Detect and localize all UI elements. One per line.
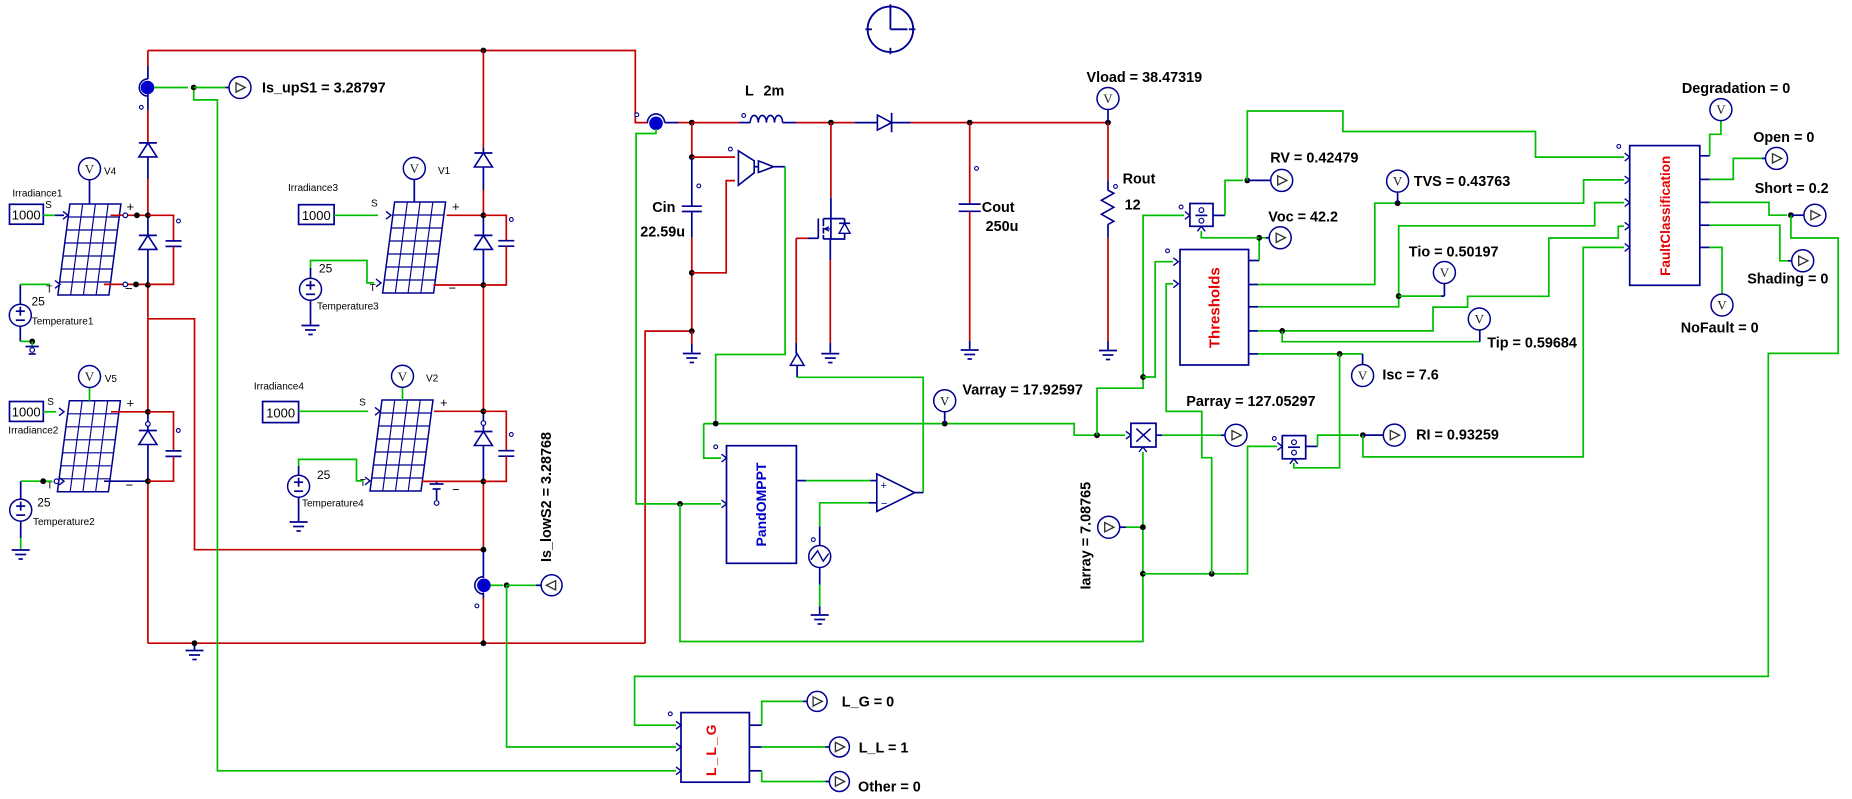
svg-text:V5: V5 — [105, 374, 118, 385]
svg-text:−: − — [449, 281, 457, 296]
svg-text:L_L = 1: L_L = 1 — [859, 740, 909, 756]
svg-text:Irradiance3: Irradiance3 — [288, 183, 338, 194]
svg-text:Thresholds: Thresholds — [1207, 267, 1224, 348]
svg-text:Cout: Cout — [982, 200, 1015, 216]
svg-text:V: V — [940, 393, 950, 408]
svg-text:V: V — [398, 369, 408, 384]
svg-text:Vload = 38.47319: Vload = 38.47319 — [1087, 70, 1203, 86]
svg-text:Temperature4: Temperature4 — [302, 499, 364, 510]
svg-text:V: V — [1358, 368, 1368, 383]
svg-text:Cin: Cin — [652, 200, 675, 216]
svg-text:PandOMPPT: PandOMPPT — [753, 462, 769, 546]
svg-text:Temperature2: Temperature2 — [33, 517, 95, 528]
svg-text:Isc = 7.6: Isc = 7.6 — [1382, 368, 1438, 384]
svg-text:2m: 2m — [764, 84, 785, 100]
svg-text:Temperature3: Temperature3 — [317, 302, 379, 313]
svg-text:S: S — [359, 398, 366, 409]
svg-text:1000: 1000 — [302, 208, 331, 223]
svg-text:Parray = 127.05297: Parray = 127.05297 — [1186, 394, 1315, 410]
svg-text:25: 25 — [319, 262, 333, 276]
svg-text:TVS = 0.43763: TVS = 0.43763 — [1414, 174, 1510, 190]
svg-text:1000: 1000 — [12, 207, 41, 222]
svg-text:Irradiance1: Irradiance1 — [12, 189, 62, 200]
svg-text:V: V — [1475, 312, 1485, 327]
svg-text:−: − — [452, 482, 460, 497]
svg-text:S: S — [371, 198, 378, 209]
svg-text:V: V — [85, 369, 95, 384]
svg-text:+: + — [127, 199, 135, 214]
svg-text:V2: V2 — [426, 374, 439, 385]
svg-text:Iarray = 7.08765: Iarray = 7.08765 — [1079, 482, 1095, 590]
svg-text:V1: V1 — [438, 166, 451, 177]
svg-text:Irradiance4: Irradiance4 — [254, 382, 304, 393]
svg-text:V: V — [85, 161, 95, 176]
svg-text:Degradation = 0: Degradation = 0 — [1682, 81, 1790, 97]
svg-text:Rout: Rout — [1123, 172, 1156, 188]
svg-text:+: + — [452, 199, 460, 214]
svg-text:NoFault = 0: NoFault = 0 — [1681, 320, 1759, 336]
svg-text:25: 25 — [32, 295, 46, 309]
svg-text:V: V — [1717, 298, 1727, 313]
svg-text:+: + — [881, 480, 887, 492]
svg-text:−: − — [125, 281, 133, 296]
svg-text:22.59u: 22.59u — [640, 225, 685, 241]
svg-text:1000: 1000 — [266, 406, 295, 421]
svg-text:−: − — [881, 498, 887, 510]
svg-text:Short = 0.2: Short = 0.2 — [1755, 181, 1829, 197]
svg-text:+: + — [127, 396, 135, 411]
svg-text:L: L — [745, 84, 754, 100]
svg-text:V4: V4 — [104, 167, 117, 178]
svg-text:T: T — [46, 285, 52, 296]
svg-text:Shading = 0: Shading = 0 — [1747, 271, 1828, 287]
svg-text:T: T — [47, 481, 53, 492]
svg-text:RV = 0.42479: RV = 0.42479 — [1270, 150, 1358, 166]
svg-text:V: V — [1393, 174, 1403, 189]
svg-text:V: V — [1103, 91, 1113, 106]
svg-text:+: + — [440, 395, 448, 410]
svg-text:V: V — [410, 161, 420, 176]
svg-text:Varray = 17.92597: Varray = 17.92597 — [962, 383, 1082, 399]
svg-text:T: T — [360, 478, 366, 489]
svg-text:250u: 250u — [986, 219, 1019, 235]
svg-text:V: V — [1716, 102, 1726, 117]
svg-text:T: T — [370, 283, 376, 294]
svg-text:S: S — [45, 200, 52, 211]
svg-text:Other = 0: Other = 0 — [858, 779, 921, 795]
svg-text:FaultClassification: FaultClassification — [1658, 156, 1673, 276]
svg-text:25: 25 — [317, 468, 331, 482]
svg-text:Voc = 42.2: Voc = 42.2 — [1268, 210, 1338, 226]
svg-text:Temperature1: Temperature1 — [32, 317, 94, 328]
svg-text:Tip = 0.59684: Tip = 0.59684 — [1487, 335, 1577, 351]
svg-text:25: 25 — [37, 496, 51, 510]
svg-text:RI = 0.93259: RI = 0.93259 — [1416, 428, 1499, 444]
svg-text:−: − — [126, 478, 134, 493]
svg-text:Tio = 0.50197: Tio = 0.50197 — [1409, 245, 1499, 261]
svg-text:L_G = 0: L_G = 0 — [842, 694, 894, 710]
svg-text:Irradiance2: Irradiance2 — [8, 426, 58, 437]
svg-text:Is_upS1 = 3.28797: Is_upS1 = 3.28797 — [262, 81, 386, 97]
svg-text:L_L_G: L_L_G — [703, 722, 719, 776]
svg-text:V: V — [1440, 265, 1450, 280]
svg-text:Is_lowS2 = 3.28768: Is_lowS2 = 3.28768 — [539, 432, 555, 562]
svg-text:12: 12 — [1125, 198, 1141, 214]
svg-text:S: S — [47, 397, 54, 408]
svg-text:1000: 1000 — [12, 405, 41, 420]
svg-text:Open = 0: Open = 0 — [1753, 130, 1814, 146]
